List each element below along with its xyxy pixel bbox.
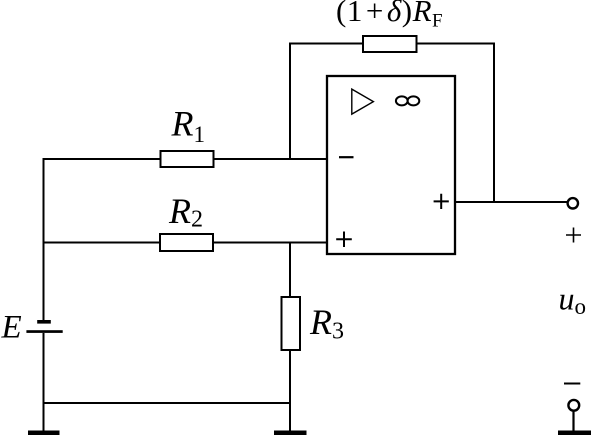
- svg-text:R3: R3: [309, 302, 344, 345]
- svg-text:(1+δ)RF: (1+δ)RF: [336, 0, 443, 32]
- svg-text:R2: R2: [168, 191, 203, 233]
- wire: [289, 43, 495, 45]
- wire: [493, 44, 495, 204]
- label minus: [564, 383, 580, 385]
- svg-text:uo: uo: [559, 280, 587, 319]
- svg-text:R1: R1: [171, 104, 206, 148]
- label plus: [566, 228, 581, 243]
- battery E: [26, 320, 62, 333]
- resistor R2: [160, 234, 213, 251]
- ground: [274, 431, 307, 435]
- wire: [44, 242, 328, 244]
- op-amp inverting input minus sign: [339, 156, 354, 158]
- wire: [43, 158, 45, 433]
- wire: [455, 201, 568, 203]
- wire: [44, 402, 291, 404]
- op-amp triangle symbol: [352, 89, 374, 114]
- op-amp U1: [327, 76, 455, 254]
- svg-text:E: E: [1, 310, 22, 346]
- op-amp infinity symbol: [396, 96, 419, 105]
- ground: [28, 431, 60, 435]
- resistor R1: [161, 151, 214, 167]
- op-amp noninverting input plus sign: [336, 232, 352, 248]
- output terminal minus node: [568, 400, 579, 411]
- op-amp output plus sign: [434, 194, 449, 209]
- wire: [44, 158, 328, 160]
- ground: [558, 431, 591, 435]
- output terminal plus node: [568, 198, 578, 208]
- wire: [289, 243, 291, 434]
- wire: [289, 44, 291, 161]
- resistor R3: [282, 297, 301, 350]
- resistor RF: [363, 36, 417, 52]
- wire: [572, 411, 574, 433]
